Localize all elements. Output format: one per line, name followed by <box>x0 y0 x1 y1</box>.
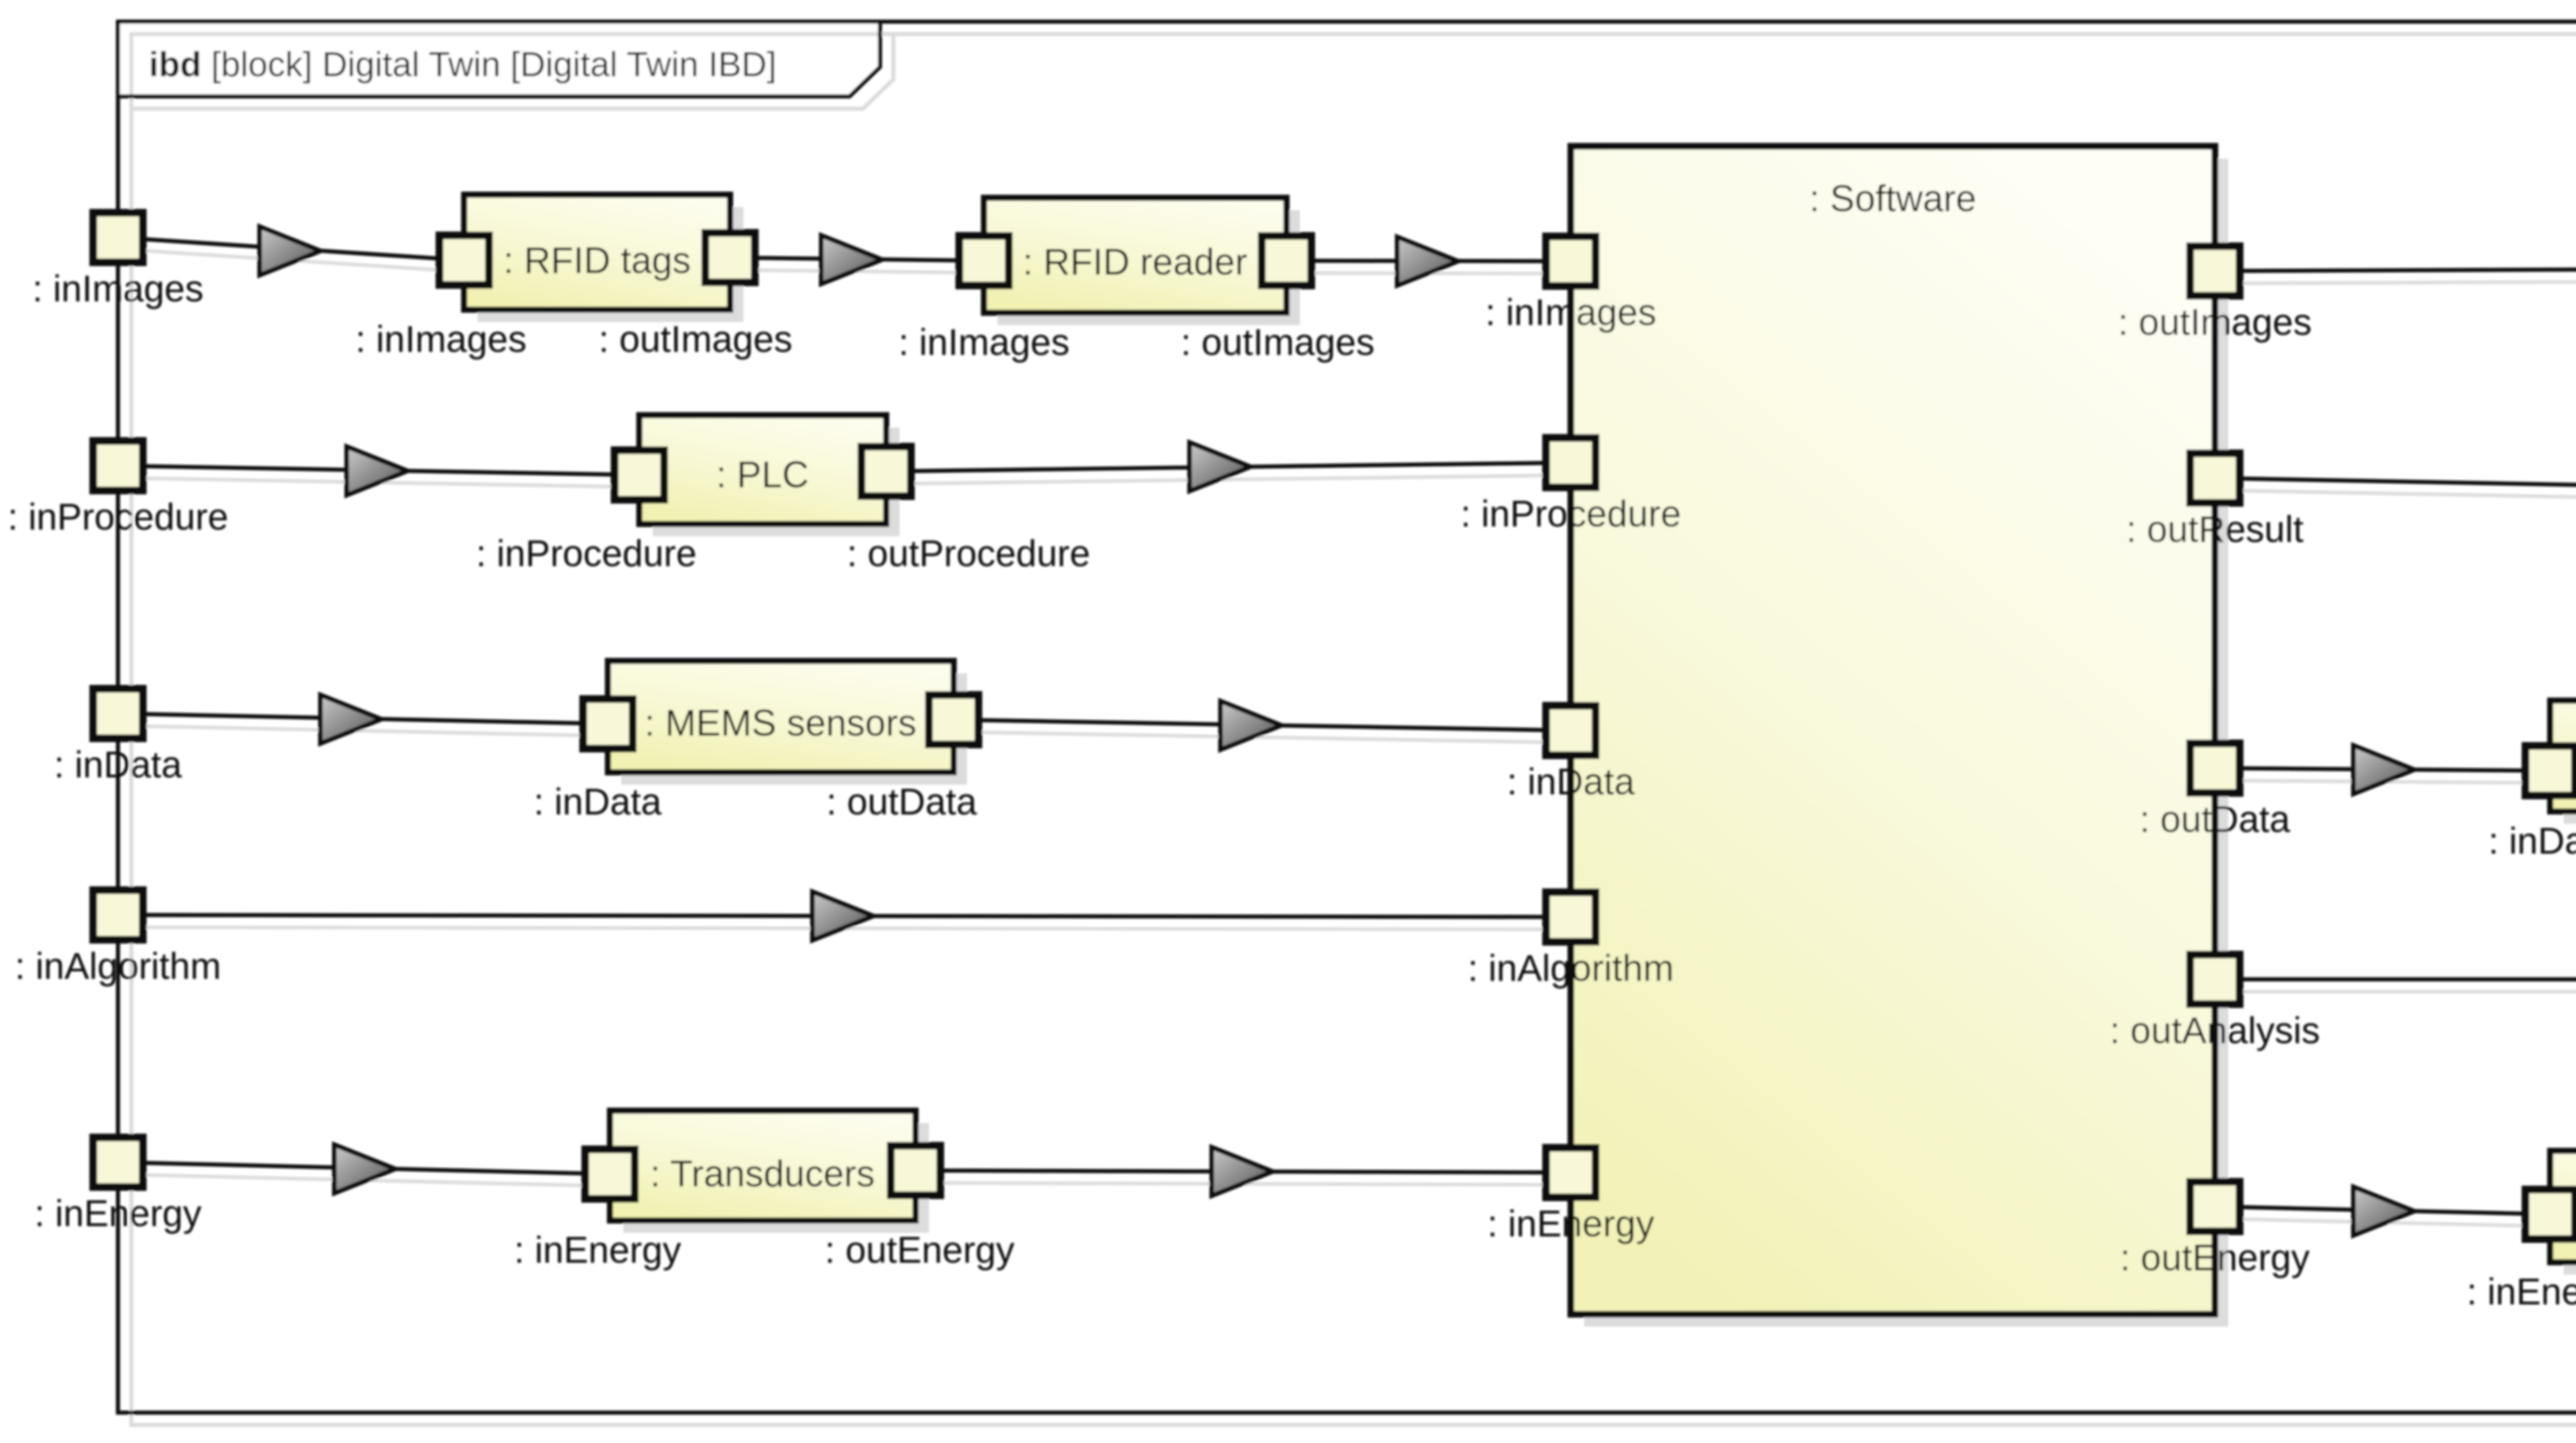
svg-text:: inProcedure: : inProcedure <box>476 533 697 574</box>
port plcR <box>861 447 911 496</box>
svg-text:: inEnergy: : inEnergy <box>35 1193 201 1234</box>
port fL5 <box>93 1138 143 1187</box>
port actL <box>2526 1190 2575 1239</box>
port sL2 <box>1546 438 1596 487</box>
svg-text:: outEnergy: : outEnergy <box>825 1230 1014 1271</box>
svg-text:: outImages: : outImages <box>599 319 792 360</box>
svg-text:: inEnergy: : inEnergy <box>1487 1203 1654 1245</box>
port fL4 <box>93 890 143 940</box>
svg-text:: inProcedure: : inProcedure <box>1461 494 1681 535</box>
svg-text:: outData: : outData <box>826 782 977 823</box>
port fL1 <box>93 213 143 262</box>
port fL2 <box>93 441 143 490</box>
svg-text:: inEnergy: : inEnergy <box>514 1230 681 1271</box>
inData wire 1 <box>118 714 608 724</box>
flow arrow 8 <box>812 892 873 940</box>
svg-text:: outAnalysis: : outAnalysis <box>2110 1010 2320 1051</box>
block Transducers <box>610 1111 916 1220</box>
svg-text:: outData: : outData <box>2140 799 2291 840</box>
port sR2 <box>2190 453 2240 503</box>
svg-text:: RFID reader: : RFID reader <box>1023 242 1247 283</box>
svg-text:: inData: : inData <box>54 744 182 786</box>
svg-text:: MEMS sensors: : MEMS sensors <box>645 703 917 744</box>
svg-text:: Transducers: : Transducers <box>650 1153 875 1195</box>
flow arrow 5 <box>1190 443 1250 491</box>
outData wire 1 <box>2215 768 2550 771</box>
port sL3 <box>1546 706 1596 755</box>
flow arrow 4 <box>347 447 408 495</box>
flow arrow 9 <box>334 1145 395 1193</box>
port memsR <box>929 695 978 744</box>
port sR3 <box>2190 743 2240 793</box>
port sL5 <box>1546 1148 1596 1197</box>
flow arrow 7 <box>1221 701 1281 750</box>
block Electric actuators <box>2550 1151 2576 1262</box>
flow arrow 3 <box>1397 237 1458 285</box>
port sR1 <box>2190 246 2240 296</box>
block PLC <box>639 415 886 524</box>
block Software <box>1571 146 2215 1314</box>
svg-text:: Software: : Software <box>1809 178 1976 219</box>
port fL3 <box>93 689 143 738</box>
svg-text:: inImages: : inImages <box>32 268 204 310</box>
svg-text:: outEnergy: : outEnergy <box>2120 1237 2310 1279</box>
outImages wire <box>2215 267 2576 271</box>
inEnergy wire 2 <box>916 1170 1571 1173</box>
port sL1 <box>1546 236 1596 286</box>
svg-text:: inEnergy: : inEnergy <box>2467 1271 2576 1313</box>
port memsL <box>583 699 633 749</box>
svg-text:: outProcedure: : outProcedure <box>847 533 1090 574</box>
inData wire 2 <box>954 720 1571 731</box>
block shadows <box>478 159 2576 1327</box>
flow arrow 13 <box>2353 745 2414 794</box>
inImages wire 1 <box>118 237 464 260</box>
port trnsR <box>891 1146 940 1195</box>
port tagsR <box>705 233 755 282</box>
inImages wire 3 <box>1286 261 1571 261</box>
svg-text:: outImages: : outImages <box>1181 322 1375 363</box>
port sL4 <box>1546 892 1596 942</box>
port readerR <box>1262 236 1311 285</box>
port sR4 <box>2190 955 2240 1004</box>
svg-text:ibd [block] Digital Twin [Digi: ibd [block] Digital Twin [Digital Twin I… <box>149 45 776 84</box>
svg-text:: outResult: : outResult <box>2126 509 2303 550</box>
outResult wire <box>2215 478 2576 498</box>
block RFID tags <box>464 195 730 310</box>
svg-text:: inProcedure: : inProcedure <box>8 497 228 538</box>
block RFID reader <box>984 198 1286 313</box>
flow arrow 10 <box>1212 1147 1273 1196</box>
svg-text:: inData: : inData <box>2488 821 2576 862</box>
port sR5 <box>2190 1182 2240 1231</box>
svg-text:: inImages: : inImages <box>355 319 527 360</box>
svg-text:: inImages: : inImages <box>899 322 1070 363</box>
svg-text:: inImages: : inImages <box>1485 292 1656 333</box>
port xcvrL <box>2526 746 2575 795</box>
svg-text:: inData: : inData <box>1507 761 1635 803</box>
svg-text:: RFID tags: : RFID tags <box>503 240 691 281</box>
flow arrow 16 <box>2353 1187 2414 1235</box>
inProcedure wire 1 <box>118 466 639 475</box>
svg-text:: outImages: : outImages <box>2118 302 2312 343</box>
inAlgorithm wire <box>118 915 1571 917</box>
block MEMS sensors <box>608 661 954 772</box>
frame title tab <box>118 22 880 96</box>
outEnergy wire 1 <box>2215 1207 2550 1214</box>
port plcL <box>615 450 664 500</box>
svg-text:: inAlgorithm: : inAlgorithm <box>15 946 221 987</box>
inEnergy wire 1 <box>118 1162 610 1174</box>
flow arrow 1 <box>260 227 320 275</box>
block RFID transceivers <box>2550 701 2576 811</box>
diagram frame tab fill <box>118 22 880 96</box>
flow arrow 6 <box>320 695 381 743</box>
outAnalysis wire <box>2215 977 2576 981</box>
svg-text:: inData: : inData <box>534 782 662 823</box>
port readerL <box>959 236 1009 285</box>
port tagsL <box>439 235 489 285</box>
inProcedure wire 2 <box>886 463 1571 471</box>
svg-text:: inAlgorithm: : inAlgorithm <box>1468 948 1674 989</box>
port trnsL <box>585 1149 635 1199</box>
flow arrow 2 <box>821 235 882 284</box>
inImages wire 2 <box>730 258 984 261</box>
svg-text:: PLC: : PLC <box>716 454 809 496</box>
